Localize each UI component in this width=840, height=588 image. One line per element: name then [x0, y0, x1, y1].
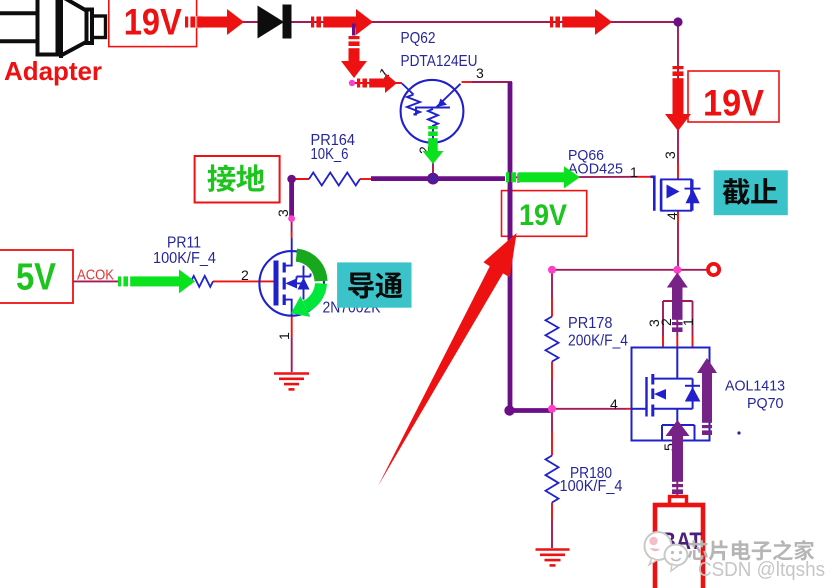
arrow: PQ62 pin2 down (green) [428, 126, 438, 129]
wire: PQ66 source down to output rail [677, 223, 679, 270]
svg-text:3: 3 [275, 209, 291, 217]
svg-text:5V: 5V [16, 257, 57, 299]
svg-text:PQ62: PQ62 [401, 30, 436, 47]
wire: PQ66 pin4 red stub [677, 211, 679, 223]
node: PR164 left junction [287, 175, 296, 184]
node: 2N7002K pin3 (pink) [288, 215, 295, 222]
wire: AOL1413 pin2 to output rail [676, 270, 678, 301]
svg-text:19V: 19V [519, 199, 567, 232]
svg-text:ACOK: ACOK [77, 268, 114, 284]
svg-text:100K/F_4: 100K/F_4 [560, 478, 623, 495]
arrow: down to PQ62 pin1 (red) [352, 24, 356, 36]
ground (PR180 bottom) [536, 550, 570, 566]
node: output rail right (pink) [673, 266, 681, 274]
wire: gate rail PR164 left red stub [292, 178, 309, 180]
transistor PQ70 AOL1413 (N-MOSFET block) [632, 348, 710, 441]
wire: PR164 right red stub [360, 178, 373, 180]
arrow: ACOK into PR11 (green) [118, 276, 121, 286]
svg-text:4: 4 [610, 396, 618, 412]
wire: PR180 top stubs [551, 409, 553, 431]
arrow: inside AOL1413 (purple) [702, 430, 712, 435]
ground (2N7002K source) [274, 374, 309, 390]
node: PQ62 pin2 junction on gate rail [428, 173, 438, 183]
node: top-right corner junction [673, 17, 682, 26]
svg-text:1: 1 [276, 332, 292, 340]
arrow: down 19V top right (red) [673, 66, 684, 69]
arrow: BAT up into PQ70 pin5 (purple) [672, 489, 683, 494]
svg-text:100K/F_4: 100K/F_4 [153, 250, 216, 267]
wire: 5V box to resistor PR11 [73, 280, 120, 282]
wire: highlight vertical over 19V box [508, 188, 513, 240]
highlight wire: gate rail thick segment [371, 176, 505, 181]
svg-text:Adapter: Adapter [4, 56, 102, 86]
resistor PR164 [309, 173, 360, 186]
node: bottom-left corner of highlight path [504, 405, 514, 415]
resistor PR178 [546, 317, 559, 362]
arrow: toward top-right corner (red) [550, 17, 553, 28]
arrow: after diode (red) [311, 17, 314, 28]
svg-text:PR11: PR11 [167, 235, 201, 252]
arrow: 2N7002K circular on-state (green) [296, 255, 321, 306]
wire: vertical drop at x=678 to PQ66 pin3 [677, 22, 679, 163]
svg-text:PR178: PR178 [568, 315, 613, 332]
wire: 2N7002K source to ground [291, 316, 293, 337]
node: output rail left (pink) [548, 266, 556, 274]
label box: 接地 [195, 156, 280, 203]
svg-text:19V: 19V [703, 83, 764, 124]
svg-text:AOL1413: AOL1413 [725, 378, 785, 395]
svg-text:2: 2 [241, 267, 249, 283]
terminal: output ring [708, 264, 719, 275]
arrow: big 19V annotation (red) [378, 233, 517, 486]
svg-text:3: 3 [662, 151, 678, 159]
transistor Q 2N7002K (N-MOSFET) [259, 238, 324, 316]
wire: PQ66 pin3 red stub [677, 163, 679, 179]
label box: 19V adapter [109, 0, 197, 47]
svg-text:2: 2 [658, 318, 674, 326]
wire: AOL1413 pin bracket [663, 300, 693, 302]
wire: PR11 to 2N7002K gate [213, 280, 275, 282]
wire: PR180 bottom stubs [551, 503, 553, 520]
wire: PQ62 pin1 stub [352, 82, 402, 84]
arrow: gate rail to PQ66 (green) [506, 172, 509, 182]
wire: AOL1413 pin5 to BAT [676, 441, 678, 498]
node: PQ62 pin1 (pink) [349, 80, 355, 86]
wire: PQ62 pin3 red stub [462, 81, 473, 83]
svg-text:3: 3 [476, 65, 484, 81]
wire: PR178 top stub [551, 270, 553, 298]
highlight wire: corner to battery-divider rail [508, 408, 553, 413]
wire: output rail to red ring [552, 269, 707, 271]
arrow: 19V into diode (red) [185, 17, 188, 28]
transistor PQ66 AOD425 (P-MOSFET) [651, 177, 701, 211]
label box: 19V middle [502, 191, 587, 237]
svg-text:PDTA124EU: PDTA124EU [401, 53, 478, 70]
highlight wire: PQ62 collector vertical (19V path) [508, 82, 513, 411]
label: 截止 (cyan) [714, 170, 788, 215]
label: 导通 (cyan) [337, 262, 411, 307]
wire: gate rail to PQ66 gate [512, 176, 638, 179]
wire: 19V box to diode (top rail) [196, 21, 258, 23]
svg-text:CSDN @ltqshs: CSDN @ltqshs [698, 559, 825, 581]
svg-text:19V: 19V [124, 2, 182, 43]
svg-text:200K/F_4: 200K/F_4 [568, 333, 628, 350]
wire: diode to top-right corner [291, 21, 678, 23]
diode D (top rail) [258, 6, 285, 39]
wire: AOL1413 pin4 red stub [626, 408, 632, 410]
label box: 5V [0, 250, 73, 303]
svg-text:4: 4 [664, 212, 680, 220]
wire: 2N7002K drain pin stubs [291, 219, 293, 232]
svg-text:PQ70: PQ70 [747, 395, 784, 412]
wire: PQ62 pin2 down to rail junction [432, 142, 434, 179]
resistor PR11 [191, 276, 213, 287]
battery BAT [655, 505, 703, 588]
highlight wire: PR164 junction down to 2N7002K pin3 [289, 179, 294, 219]
wire: PR178 bottom stub [551, 379, 553, 409]
wire: PQ62 pin3 to corner [472, 81, 512, 83]
wire: AOL1413 pin red stubs 3,2,1 [662, 336, 664, 348]
label box: 19V top right [688, 71, 779, 122]
arrow: into PQ62 pin1 (red, small) [357, 79, 360, 88]
arrow: battery sense up to rail (purple) [672, 327, 683, 332]
wire: rail to AOL1413 pin4 [552, 408, 626, 410]
resistor PR180 [546, 456, 559, 503]
transistor PQ62 PDTA124EU (digital PNP) [401, 80, 464, 143]
wire: PR178 red stubs [551, 298, 553, 317]
adapter plug symbol [0, 0, 106, 58]
node: pink tick at gate-rail crossing [517, 173, 519, 183]
svg-text:1: 1 [630, 164, 638, 180]
node: divider mid rail (pink) [548, 405, 556, 413]
watermark text 芯片电子之家 [688, 540, 708, 560]
watermark logo bubbles [645, 532, 688, 571]
svg-text:10K_6: 10K_6 [311, 146, 349, 163]
